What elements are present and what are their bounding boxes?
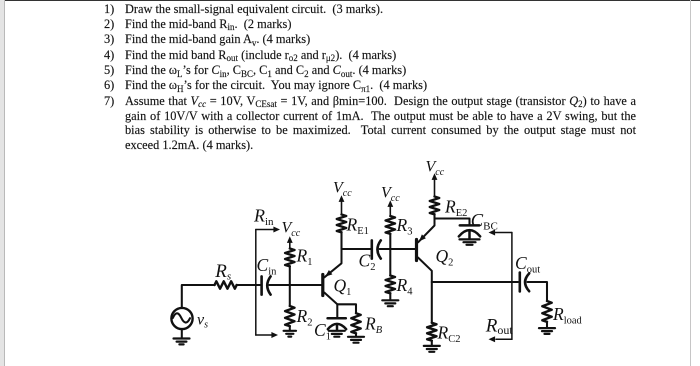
ground (vs) bbox=[174, 339, 190, 345]
capacitor Cin bbox=[262, 276, 271, 294]
resistor Rs bbox=[215, 281, 237, 288]
capacitor C1 bbox=[328, 318, 347, 330]
resistor RB bbox=[351, 313, 360, 333]
ground (RC2) bbox=[424, 346, 440, 352]
resistor RE1 bbox=[337, 215, 346, 233]
resistor RC2 bbox=[427, 323, 436, 341]
svg-text:RE2: RE2 bbox=[444, 197, 467, 220]
svg-text:Rout: Rout bbox=[485, 315, 514, 337]
wire vs-top bbox=[182, 285, 215, 308]
wire R2-gnd bbox=[289, 326, 291, 330]
ground (R4) bbox=[382, 300, 398, 306]
resistor R1 bbox=[285, 249, 294, 267]
svg-text:Cin: Cin bbox=[257, 255, 278, 278]
wire vs-bottom bbox=[181, 329, 183, 338]
svg-text:Q2: Q2 bbox=[436, 246, 454, 269]
svg-text:R3: R3 bbox=[396, 215, 413, 238]
svg-text:RC2: RC2 bbox=[437, 323, 461, 346]
wire RE1-node bbox=[340, 232, 342, 249]
svg-text:vs: vs bbox=[197, 312, 208, 331]
svg-text:Vcc: Vcc bbox=[381, 185, 400, 204]
ground (R2) bbox=[284, 331, 296, 337]
wire Q2-output bbox=[432, 281, 518, 283]
resistor R3 bbox=[386, 216, 395, 234]
wire node-Q2 bbox=[390, 248, 416, 250]
ground (C1) bbox=[329, 331, 345, 337]
Rout indicator bbox=[489, 230, 512, 343]
Vcc arrow (RE1) bbox=[339, 195, 345, 214]
svg-text:Q1: Q1 bbox=[334, 276, 352, 299]
resistor R4 bbox=[386, 276, 395, 294]
wire R4-gnd bbox=[389, 293, 391, 300]
svg-text:RE1: RE1 bbox=[346, 215, 369, 238]
capacitor CBC bbox=[459, 225, 480, 239]
resistor R2 bbox=[285, 306, 294, 326]
source vs bbox=[171, 308, 192, 329]
transistor Q1 bbox=[323, 249, 342, 304]
Rin indicator bbox=[256, 227, 280, 339]
wire R1-node bbox=[289, 266, 291, 306]
wire Rload-gnd bbox=[546, 322, 548, 328]
wire C2-node bbox=[380, 248, 391, 250]
svg-text:RB: RB bbox=[364, 314, 383, 337]
wire RC2 top bbox=[431, 282, 433, 323]
resistor Rload bbox=[542, 301, 551, 322]
wire RB-gnd bbox=[355, 333, 357, 336]
Vcc arrow (R3) bbox=[387, 200, 393, 215]
svg-text:C1: C1 bbox=[314, 320, 331, 343]
capacitor C2 bbox=[372, 240, 381, 258]
svg-text:Vcc: Vcc bbox=[333, 180, 352, 199]
ground (CBC) bbox=[460, 239, 480, 244]
svg-text:R4: R4 bbox=[396, 275, 414, 298]
svg-text:R1: R1 bbox=[296, 246, 313, 269]
resistor RE2 bbox=[430, 197, 439, 215]
svg-text:CBC: CBC bbox=[471, 211, 498, 232]
wire Rs-Cin bbox=[236, 284, 260, 286]
capacitor Cout bbox=[520, 273, 529, 292]
wire R3-R4 bbox=[389, 234, 391, 276]
wire RE2-Q2/CBC bbox=[435, 214, 470, 225]
wire Q1 collector node bbox=[337, 304, 356, 318]
svg-text:Rin: Rin bbox=[253, 205, 274, 228]
ground (RB) bbox=[348, 337, 364, 343]
ground (Rload) bbox=[539, 328, 555, 334]
svg-text:Vcc: Vcc bbox=[282, 220, 301, 239]
svg-text:Rload: Rload bbox=[552, 304, 583, 327]
Vcc arrow (R1) bbox=[287, 236, 293, 248]
svg-text:R2: R2 bbox=[296, 306, 313, 329]
wire Cin-Q1 bbox=[269, 284, 322, 286]
wire Cout-Rload bbox=[528, 282, 548, 301]
svg-text:Rs: Rs bbox=[214, 261, 231, 283]
svg-text:Cout: Cout bbox=[515, 253, 540, 276]
wire node-C2 bbox=[342, 248, 371, 250]
transistor Q2 bbox=[417, 219, 435, 283]
wire RC2-gnd bbox=[431, 341, 433, 346]
Vcc arrow (RE2) bbox=[432, 173, 438, 196]
